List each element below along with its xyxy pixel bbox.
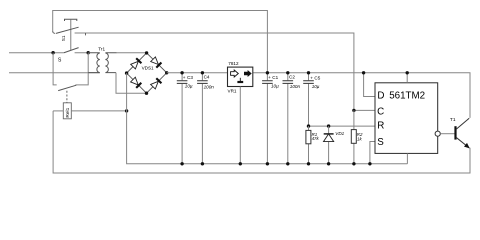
svg-text:C3: C3 — [187, 75, 193, 80]
svg-text:100n: 100n — [204, 85, 215, 90]
wire S input stub of U1 to ground rail — [370, 142, 375, 164]
junction R1 bottom — [307, 162, 310, 165]
junction R1 top — [307, 124, 310, 127]
diode VD1 leads — [328, 126, 330, 164]
diode VD1 triangle — [324, 134, 334, 142]
push-button S1 actuator bar — [65, 19, 77, 21]
bridge diode top-left (anode left node, cathode top node) — [131, 58, 142, 69]
junction VD1 top — [327, 124, 330, 127]
resistor R2 body — [351, 130, 356, 144]
VR1 input arrow (outline) — [231, 70, 239, 77]
resistor R1 leads — [308, 126, 310, 164]
junction R2 bottom — [352, 162, 355, 165]
svg-text:S: S — [377, 137, 384, 148]
switch S1 lever — [56, 27, 79, 33]
junction transformer primary top — [87, 51, 90, 54]
VR1 output arrow (filled) — [244, 70, 252, 77]
wire U1 output to T1 base — [440, 133, 454, 135]
relay Rel1 coil — [63, 103, 71, 119]
svg-text:Tr1: Tr1 — [98, 46, 105, 51]
switch S pole1 lever — [64, 48, 79, 53]
capacitor C4 plates — [197, 81, 208, 84]
wire S1 left contact hook — [53, 31, 56, 33]
transformer Tr1 primary winding — [88, 53, 100, 73]
transistor T1 emitter — [456, 137, 469, 148]
wire pole link right vertical — [75, 53, 88, 85]
wire relay loop: left vertical, bottom run, up to T1 emitter — [53, 111, 470, 173]
transformer Tr1 secondary winding — [105, 53, 116, 73]
junction bridge bottom node — [145, 92, 148, 95]
bridge diode bottom-right (anode bottom node, cathode right node) — [151, 78, 162, 89]
svg-text:VDS1: VDS1 — [142, 65, 154, 70]
resistor R1 body — [306, 130, 311, 143]
svg-text:T1: T1 — [450, 117, 456, 123]
wire U1 VDD pin to +12V rail — [406, 73, 408, 83]
svg-text:10µ: 10µ — [271, 83, 279, 88]
junction VD1 bottom — [327, 162, 330, 165]
svg-text:S: S — [58, 58, 62, 64]
junction VR1 ground — [239, 162, 242, 165]
svg-text:R: R — [377, 120, 384, 131]
wire +12V unregulated rail to VR1 — [167, 72, 228, 74]
mechanical link dashed to relay — [66, 91, 68, 103]
diode VD1 cathode bar — [324, 133, 334, 135]
capacitor C2 leads — [287, 73, 289, 164]
svg-text:100n: 100n — [290, 84, 301, 89]
svg-text:47k: 47k — [312, 136, 320, 141]
wire secondary bottom to bridge AC2 — [116, 73, 147, 94]
junction C2 bottom — [286, 162, 289, 165]
switch S pole2 lever — [58, 85, 76, 90]
junction C1 bottom — [266, 162, 269, 165]
svg-text:S1: S1 — [61, 35, 66, 41]
svg-text:C: C — [377, 106, 384, 117]
capacitor C3 plates — [177, 81, 188, 84]
wire pole1 right contact — [75, 52, 89, 54]
svg-text:7812: 7812 — [228, 61, 239, 66]
bridge diode bottom-left (anode left node, cathode bottom node) — [131, 77, 142, 88]
flip-flop U1 561TM2 box — [375, 83, 438, 154]
capacitor C5 leads — [308, 73, 310, 126]
transistor T1 emitter arrow — [464, 143, 470, 149]
svg-text:Rel1: Rel1 — [65, 107, 71, 117]
svg-text:C4: C4 — [204, 74, 210, 79]
contact tick on S1 output wire — [85, 33, 87, 35]
junction bridge top node — [145, 51, 148, 54]
resistor R2 leads — [353, 110, 355, 163]
U1 inverted output bubble — [435, 131, 440, 136]
wire D input from +12V rail — [364, 73, 375, 97]
capacitor C1 plates — [262, 81, 273, 84]
push-button S1 stem — [70, 19, 72, 50]
capacitor C1 leads — [266, 73, 268, 164]
junction C5 top — [307, 71, 310, 74]
junction C2 top — [286, 71, 289, 74]
wire top rectangle from S1 left contact to +12V rail — [53, 11, 268, 73]
junction S input on ground rail — [368, 162, 371, 165]
junction VDD on rail — [406, 71, 409, 74]
wire VR1 ground pin — [239, 87, 241, 164]
junction bridge right node — [165, 71, 168, 74]
wire secondary top to bridge AC1 — [117, 52, 147, 54]
transistor T1 base bar — [454, 126, 456, 139]
capacitor C3 leads — [181, 73, 183, 164]
junction D input on rail — [362, 71, 365, 74]
wire minus line from bridge left node to ground rail — [127, 73, 408, 164]
wire S1 output to C input of U1 — [75, 33, 354, 110]
bridge rectifier VDS1 edges — [127, 53, 167, 93]
wire relay right lead — [71, 110, 126, 112]
svg-text:10µ: 10µ — [312, 84, 320, 89]
wire +12V regulated rail from VR1 to T1 collector — [253, 73, 470, 118]
svg-text:C1: C1 — [272, 75, 278, 80]
wire mains line L — [9, 52, 64, 54]
svg-text:D: D — [377, 90, 384, 101]
svg-text:1k: 1k — [357, 136, 362, 141]
junction C1 top — [266, 71, 269, 74]
svg-text:C5: C5 — [314, 75, 320, 80]
junction C3 top — [180, 71, 183, 74]
bridge diode top-right (anode top node, cathode right node) — [151, 57, 162, 68]
regulator VR1 7812 box — [228, 67, 253, 86]
wire mains line N / primary bottom — [9, 72, 100, 74]
junction C3 bottom — [180, 162, 183, 165]
wire pole link left vertical — [53, 53, 57, 85]
wire reset node line to R input of U1 — [309, 125, 376, 127]
wire C input stub of U1 — [354, 109, 375, 111]
junction C4 bottom — [201, 162, 204, 165]
svg-text:+: + — [310, 75, 313, 80]
capacitor C5 plates — [303, 81, 314, 84]
wire relay left lead — [53, 110, 63, 112]
svg-text:+: + — [268, 75, 271, 80]
VR1 internal ground symbol — [239, 78, 241, 81]
junction C input / R2 top — [352, 109, 355, 112]
junction bridge left node — [125, 71, 128, 74]
transistor T1 collector — [456, 118, 469, 129]
svg-text:C2: C2 — [289, 75, 295, 80]
junction C4 top — [201, 71, 204, 74]
wire U1 VSS pin to ground rail — [406, 153, 408, 163]
svg-text:10µ: 10µ — [185, 84, 193, 89]
svg-text:VR1: VR1 — [228, 88, 237, 93]
svg-text:+: + — [183, 75, 186, 80]
junction switch pole1 input — [51, 51, 54, 54]
capacitor C4 leads — [201, 73, 203, 164]
svg-text:561TM2: 561TM2 — [389, 90, 425, 101]
capacitor C2 plates — [283, 81, 294, 84]
junction relay to minus line — [125, 109, 128, 112]
svg-text:VD1: VD1 — [335, 131, 344, 136]
